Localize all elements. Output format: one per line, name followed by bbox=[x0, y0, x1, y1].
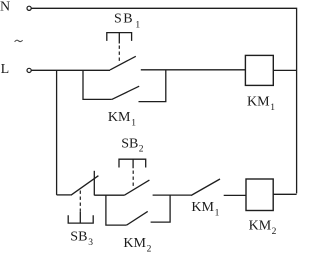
wire KM1 coil to right rail bbox=[273, 69, 296, 71]
AC symbol ~ bbox=[15, 40, 23, 42]
pushbutton SB3 (NC) stop bar bbox=[93, 171, 95, 196]
pushbutton SB2 actuator link (dashed) bbox=[132, 171, 134, 187]
coil KM1 bbox=[245, 55, 273, 85]
svg-text:SB: SB bbox=[70, 230, 87, 245]
wire rung2 start bbox=[57, 194, 71, 196]
svg-text:3: 3 bbox=[88, 238, 93, 248]
wire N rail (top horizontal + right vertical) bbox=[31, 8, 296, 193]
svg-text:KM: KM bbox=[108, 110, 131, 125]
svg-text:KM: KM bbox=[123, 236, 146, 251]
svg-text:SB: SB bbox=[114, 11, 134, 26]
svg-text:1: 1 bbox=[215, 209, 220, 219]
contact KM2 latch blade bbox=[127, 211, 148, 225]
pushbutton SB2 actuator bbox=[119, 159, 146, 168]
pushbutton SB3 (NC) blade bbox=[71, 176, 99, 196]
terminal N bbox=[27, 6, 31, 10]
svg-text:2: 2 bbox=[147, 244, 152, 254]
coil KM2 bbox=[246, 179, 273, 211]
contact KM1 latch loop left bbox=[83, 70, 112, 99]
svg-text:1: 1 bbox=[131, 119, 136, 129]
svg-text:2: 2 bbox=[272, 227, 277, 237]
svg-text:2: 2 bbox=[139, 145, 144, 155]
contact KM1 latch blade bbox=[112, 86, 139, 99]
svg-text:SB: SB bbox=[121, 136, 138, 151]
svg-text:KM: KM bbox=[247, 94, 270, 109]
contact KM2 latch loop right bbox=[151, 195, 171, 222]
svg-text:1: 1 bbox=[135, 20, 140, 30]
svg-text:N: N bbox=[0, 0, 10, 14]
contact KM2 latch loop left bbox=[106, 195, 127, 225]
pushbutton SB1 actuator bbox=[107, 33, 132, 44]
contact KM1 aux blade (rung2) bbox=[191, 179, 220, 196]
wire SB1 right to KM1 coil bbox=[141, 69, 246, 71]
svg-text:KM: KM bbox=[249, 219, 272, 234]
wire L rail to SB1 bbox=[31, 69, 110, 71]
wire SB2 right to KM1 aux bbox=[153, 194, 191, 196]
pushbutton SB2 contact blade bbox=[124, 180, 149, 195]
svg-text:1: 1 bbox=[270, 103, 275, 113]
pushbutton SB1 actuator link (dashed) bbox=[118, 46, 120, 64]
pushbutton SB3 actuator bbox=[68, 212, 93, 223]
wire rung2 drop at x=56.6 bbox=[56, 70, 58, 195]
contact KM1 latch loop right bbox=[139, 70, 166, 101]
pushbutton SB3 actuator link (dashed) bbox=[79, 191, 81, 213]
pushbutton SB1 contact blade bbox=[110, 56, 136, 70]
wire KM1 aux to KM2 coil bbox=[224, 194, 246, 196]
wire SB3 to SB2 bbox=[94, 194, 124, 196]
terminal L bbox=[27, 68, 31, 72]
wire KM2 coil to right rail bbox=[273, 193, 296, 195]
svg-text:KM: KM bbox=[191, 200, 214, 215]
svg-text:L: L bbox=[1, 62, 10, 77]
